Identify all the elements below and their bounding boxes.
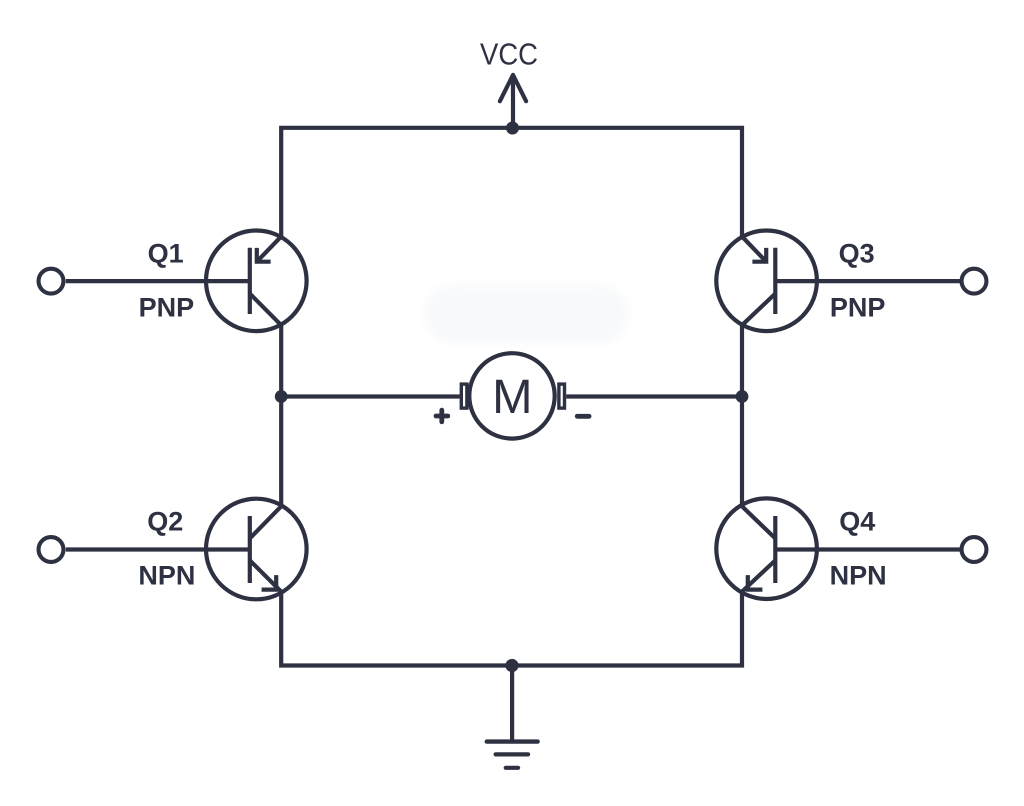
wire Q1 base xyxy=(66,279,250,283)
wire left rail middle xyxy=(279,325,283,506)
wire Q2 base xyxy=(66,547,250,551)
transistor Q3 xyxy=(716,230,817,331)
label minus xyxy=(577,414,589,419)
svg-text:Q1: Q1 xyxy=(148,238,184,268)
node left mid junction xyxy=(275,390,288,403)
svg-text:NPN: NPN xyxy=(830,561,887,591)
svg-text:PNP: PNP xyxy=(139,293,195,323)
svg-text:NPN: NPN xyxy=(138,561,195,591)
wire Q3 base xyxy=(775,279,961,283)
wire motor right xyxy=(566,394,742,398)
node right mid junction xyxy=(736,390,749,403)
wire Q4 base xyxy=(775,547,961,551)
svg-text:Q4: Q4 xyxy=(839,506,875,536)
terminal Q3 input xyxy=(962,269,987,294)
ground xyxy=(487,666,538,768)
wire top rail xyxy=(281,128,742,237)
label plus xyxy=(436,410,448,422)
terminal Q1 input xyxy=(39,269,64,294)
transistor Q4 xyxy=(716,498,817,599)
svg-text:PNP: PNP xyxy=(830,293,886,323)
transistor Q2 xyxy=(206,499,307,600)
motor M1 xyxy=(461,353,564,438)
svg-text:VCC: VCC xyxy=(480,37,538,72)
wire right rail middle xyxy=(740,325,744,506)
wire motor left xyxy=(281,394,460,398)
svg-text:Q3: Q3 xyxy=(839,238,875,268)
transistor Q1 xyxy=(206,230,307,331)
terminal Q4 input xyxy=(962,537,987,562)
svg-text:M: M xyxy=(492,370,532,424)
wire left rail bottom + bottom rail + right rail bottom xyxy=(281,592,742,666)
power VCC symbol xyxy=(500,75,526,128)
watermark blob xyxy=(424,285,629,343)
terminal Q2 input xyxy=(39,537,64,562)
node VCC junction xyxy=(506,122,519,135)
node ground junction xyxy=(505,659,518,672)
svg-text:Q2: Q2 xyxy=(147,506,183,536)
